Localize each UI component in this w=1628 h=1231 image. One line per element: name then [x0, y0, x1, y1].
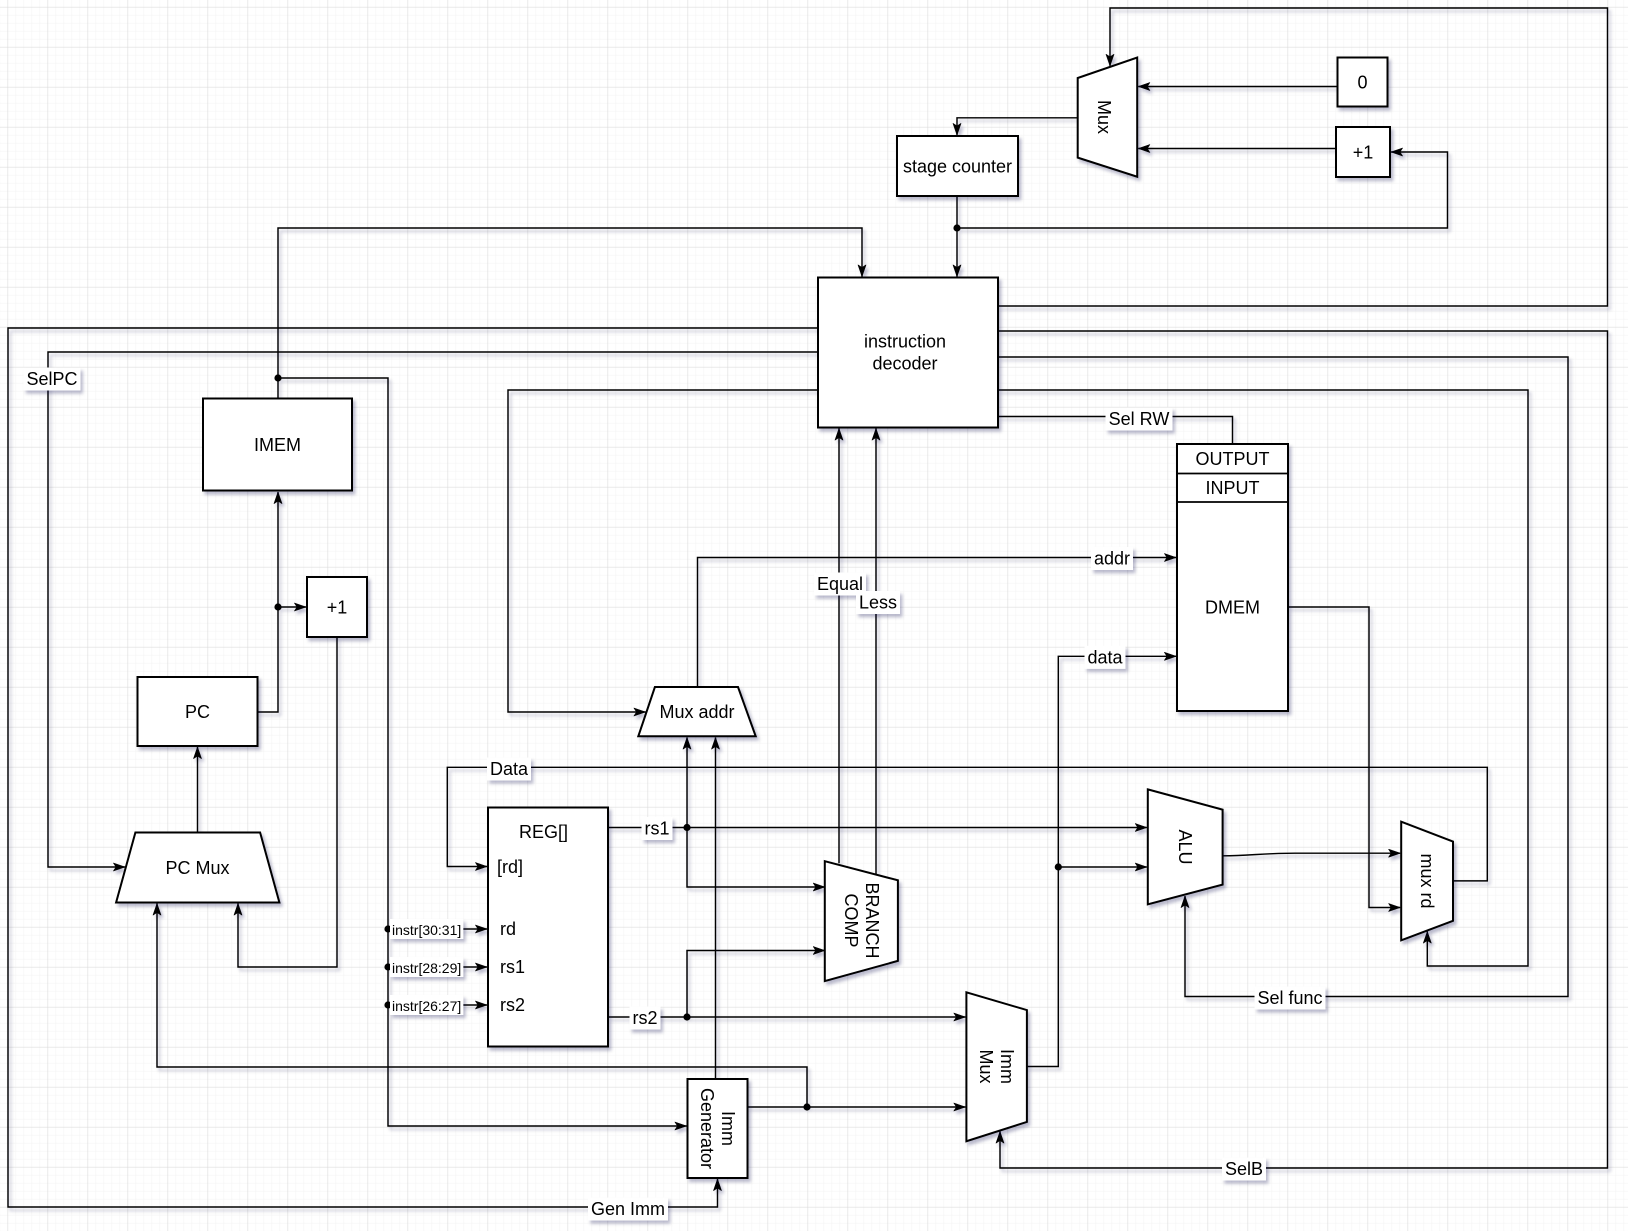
svg-text:SelPC: SelPC [26, 369, 77, 389]
junction instr[30:31] [384, 925, 391, 932]
mux Imm Mux [966, 992, 1027, 1141]
block +1 incrementer (PC) [307, 577, 367, 637]
svg-text:Less: Less [859, 593, 897, 613]
label Data [487, 758, 531, 781]
block REG register file [488, 808, 608, 1047]
svg-text:Mux: Mux [1094, 100, 1114, 134]
label Equal [814, 573, 866, 596]
wire stage counter to instruction decoder [956, 196, 958, 277]
svg-text:DMEM: DMEM [1205, 598, 1260, 618]
junction instr[28:29] [384, 963, 391, 970]
wire +1 incrementer to Mux [1138, 148, 1336, 150]
svg-text:Data: Data [490, 759, 529, 779]
mux Mux (stage select) [1078, 58, 1138, 177]
label SelPC [24, 368, 81, 391]
svg-text:instr[26:27]: instr[26:27] [392, 998, 461, 1014]
svg-text:addr: addr [1094, 549, 1130, 569]
junction Imm Generator output [803, 1103, 810, 1110]
svg-text:rs2: rs2 [500, 995, 525, 1015]
wire instr[26:27] to REG rs2 [388, 1004, 487, 1006]
svg-text:ImmMux: ImmMux [976, 1049, 1017, 1084]
wire rs1 to Mux addr input [686, 738, 688, 828]
svg-text:rd: rd [500, 919, 516, 939]
wire PC to IMEM [258, 492, 279, 712]
junction rs2 [683, 1013, 690, 1020]
svg-text:Gen Imm: Gen Imm [591, 1199, 665, 1219]
junction instr[26:27] [384, 1001, 391, 1008]
block stage counter [897, 136, 1018, 196]
svg-text:OUTPUT: OUTPUT [1196, 449, 1270, 469]
wire DMEM output to mux rd [1288, 607, 1400, 908]
label SelB [1222, 1158, 1266, 1181]
wire instr[28:29] to REG rs1 [388, 966, 487, 968]
wire decoder Gen Imm to Imm Generator [8, 328, 818, 1207]
wire Mux addr output to DMEM addr [698, 558, 1177, 688]
svg-text:Sel func: Sel func [1257, 988, 1322, 1008]
block IMEM [203, 399, 352, 491]
svg-text:mux rd: mux rd [1417, 853, 1437, 908]
svg-text:+1: +1 [1353, 143, 1374, 163]
svg-text:instr[30:31]: instr[30:31] [392, 922, 461, 938]
wire Imm Mux output branch to ALU input B [1058, 866, 1147, 868]
mux mux rd [1401, 822, 1453, 941]
wire stage counter branch to +1 incrementer [957, 152, 1448, 228]
label instr[26:27] [390, 995, 463, 1015]
svg-text:ALU: ALU [1175, 829, 1195, 864]
svg-text:rs1: rs1 [644, 819, 669, 839]
wire instruction bus to Imm Generator [278, 378, 687, 1126]
wire 0 constant to Mux [1138, 86, 1337, 88]
svg-text:stage counter: stage counter [903, 157, 1012, 177]
wire decoder to Mux select (top loop) [998, 8, 1608, 306]
block DMEM [1177, 444, 1288, 711]
wire Imm Generator top output to Mux addr right input [715, 738, 717, 1080]
label rs2 [630, 1007, 661, 1030]
wire decoder Sel func to ALU select [998, 357, 1568, 997]
label instr[30:31] [390, 919, 463, 939]
svg-text:INPUT: INPUT [1206, 478, 1260, 498]
svg-text:SelB: SelB [1225, 1159, 1263, 1179]
junction Imm Mux output [1055, 863, 1062, 870]
junction rs1 [683, 824, 690, 831]
wire PC branch to +1 [278, 606, 306, 608]
block constant 0 [1338, 58, 1388, 107]
wire IMEM instruction to decoder [278, 228, 862, 399]
svg-text:IMEM: IMEM [254, 435, 301, 455]
wire REG rs2 to Imm Mux input [608, 1016, 965, 1018]
wire decoder SelB to Imm Mux select [998, 331, 1608, 1168]
block BRANCH COMP [825, 861, 898, 981]
wire rs2 to BRANCH COMP lower input [687, 951, 825, 1018]
junction IMEM output [274, 374, 281, 381]
mux PC Mux [116, 833, 279, 903]
wire instr[30:31] to REG rd [388, 928, 487, 930]
svg-text:rs2: rs2 [632, 1008, 657, 1028]
label data [1085, 646, 1126, 669]
wire BRANCH COMP Less to decoder [875, 429, 877, 875]
mux Mux addr [638, 687, 755, 736]
wire BRANCH COMP Equal to decoder [838, 429, 840, 864]
wire PC Mux to PC [197, 747, 199, 833]
wire ALU output to mux rd [1223, 853, 1401, 856]
wire Imm Mux output to DMEM data [1027, 656, 1176, 1066]
svg-text:Sel RW: Sel RW [1109, 409, 1170, 429]
block +1 incrementer (stage) [1336, 127, 1390, 177]
wire rs1 to BRANCH COMP upper input [687, 828, 825, 888]
svg-text:+1: +1 [327, 598, 348, 618]
wire decoder SelPC to PC Mux [48, 352, 818, 867]
wire decoder to Mux addr select [508, 390, 818, 712]
label rs1 [642, 817, 673, 840]
block PC [138, 677, 258, 746]
junction stage counter line [953, 224, 960, 231]
wire decoder Sel RW to DMEM [998, 417, 1233, 445]
svg-text:BRANCHCOMP: BRANCHCOMP [841, 882, 882, 958]
svg-text:PC: PC [185, 702, 210, 722]
wire decoder to mux rd select [998, 390, 1528, 966]
svg-text:0: 0 [1357, 73, 1367, 93]
svg-text:PC Mux: PC Mux [165, 858, 229, 878]
svg-text:[rd]: [rd] [497, 857, 523, 877]
svg-text:instr[28:29]: instr[28:29] [392, 960, 461, 976]
label addr [1091, 547, 1133, 570]
svg-text:rs1: rs1 [500, 957, 525, 977]
wire mux rd output Data writeback to REG [447, 767, 1487, 881]
junction PC output [274, 603, 281, 610]
label Sel RW [1106, 408, 1173, 431]
wire Mux output to stage counter [957, 118, 1078, 135]
block instruction decoder [818, 278, 998, 428]
wire +1 to PC Mux right input [238, 637, 337, 967]
label Less [856, 591, 900, 614]
block Imm Generator [688, 1079, 748, 1178]
label Gen Imm [588, 1198, 668, 1221]
block ALU [1148, 789, 1223, 904]
wire REG rs1 to ALU input A [608, 827, 1147, 829]
wire Imm Generator output to Imm Mux [807, 1106, 965, 1108]
svg-text:Mux addr: Mux addr [659, 702, 734, 722]
svg-text:data: data [1087, 647, 1123, 667]
label Sel func [1255, 987, 1326, 1010]
svg-text:REG[]: REG[] [519, 822, 568, 842]
wire Imm Generator output to PC Mux left input [157, 904, 807, 1108]
label instr[28:29] [390, 957, 463, 977]
